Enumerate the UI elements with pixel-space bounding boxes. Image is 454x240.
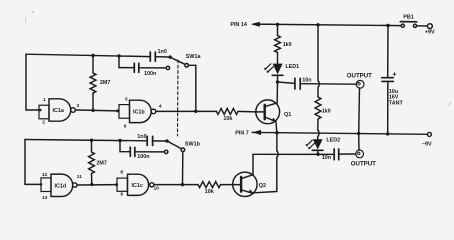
- wire 10k to Q2 base: [221, 184, 233, 186]
- svg-text:9: 9: [120, 191, 123, 197]
- switch SW1b pole circle: [181, 148, 185, 152]
- svg-text:10n: 10n: [322, 155, 331, 161]
- capacitor C 10n bottom plates: [333, 149, 335, 160]
- switch SW1a unused contact circle: [166, 66, 169, 69]
- node IC1d input dot: [40, 183, 43, 186]
- node Q1 emitter on rail: [275, 131, 278, 134]
- wire left rail bottom section: [24, 140, 26, 185]
- svg-text:13: 13: [42, 195, 48, 201]
- node IC1b input dot: [116, 109, 119, 112]
- wire SW1b vertical: [182, 152, 184, 185]
- gate IC1c body: [128, 174, 149, 195]
- resistor R 10k top: [217, 108, 239, 114]
- wire IC1a output: [75, 109, 117, 112]
- switch PB1 contacts: [401, 24, 404, 27]
- gate IC1c input box: [117, 178, 128, 191]
- svg-text:1n0: 1n0: [137, 134, 146, 140]
- node 100n top branch junction: [117, 54, 120, 57]
- svg-text:5: 5: [125, 97, 128, 103]
- svg-text:IC1b: IC1b: [133, 109, 145, 115]
- switch SW1b lever: [168, 142, 181, 149]
- wire bottom-left node rail: [25, 140, 147, 141]
- dust specks (scan artifacts): [25, 11, 451, 106]
- gate IC1a body: [49, 99, 71, 121]
- node 2M7 bottom junction: [91, 109, 94, 112]
- svg-text:Q1: Q1: [284, 112, 291, 118]
- svg-text:Q2: Q2: [259, 183, 266, 189]
- svg-text:10k: 10k: [223, 116, 232, 122]
- wire 1n0 to SW1b contact: [153, 140, 166, 142]
- wire left rail down to IC1a input: [25, 54, 27, 110]
- wire IC1b output to 10k: [156, 110, 217, 112]
- wire 10k to Q1 base: [238, 110, 256, 113]
- svg-text:2M7: 2M7: [96, 161, 107, 167]
- svg-text:4: 4: [159, 104, 162, 110]
- node 10u branch top dot: [386, 24, 389, 27]
- wire 100n to open contact bottom: [135, 151, 165, 153]
- wire rail to jack2 sleeve: [358, 134, 360, 151]
- resistor R 1k0 top: [275, 36, 281, 53]
- svg-text:OUTPUT: OUTPUT: [347, 73, 372, 80]
- svg-text:+: +: [392, 69, 397, 78]
- arrow PIN 14 head: [251, 22, 260, 27]
- arrow PIN 7 head: [252, 130, 261, 135]
- wire 10u branch vertical: [387, 26, 389, 78]
- svg-text:PIN 7: PIN 7: [235, 131, 248, 137]
- wire Q2 emitter horizontal: [253, 192, 277, 193]
- wire 1n0 to switch contact: [155, 56, 169, 58]
- svg-text:1k0: 1k0: [322, 108, 331, 114]
- switch SW1a lever: [171, 58, 185, 65]
- svg-text:1k0: 1k0: [283, 42, 292, 48]
- gate IC1a output bubble: [71, 108, 76, 113]
- svg-text:100n: 100n: [144, 71, 156, 77]
- node SW1a contact dot: [169, 55, 172, 58]
- resistor R 10k bottom: [198, 182, 221, 188]
- wire 10n to output jack 1: [300, 83, 356, 86]
- wire top-left node rail left part: [26, 54, 150, 56]
- wire IC1a input: [26, 109, 40, 111]
- gate IC1b output bubble: [151, 109, 156, 114]
- svg-text:10: 10: [154, 186, 160, 192]
- node IC1b output junction: [194, 110, 197, 113]
- LED LED1: [277, 76, 279, 82]
- wire 10n1 from Q1 collector: [278, 82, 295, 83]
- svg-text:PB1: PB1: [403, 15, 414, 21]
- resistor R 2M7 top: [92, 56, 94, 74]
- wire SW1a pole to vertical: [188, 64, 195, 66]
- wire +9V top rail: [278, 24, 402, 25]
- svg-text:IC1a: IC1a: [53, 108, 65, 114]
- wire vertical to IC1b output: [195, 65, 197, 111]
- node 100n bottom branch junction: [118, 139, 121, 142]
- node SW1b bottom junction: [181, 183, 184, 186]
- svg-text:PIN 14: PIN 14: [230, 22, 246, 28]
- wire 10n2 to jack2: [339, 153, 356, 155]
- wire Q1 emitter down: [276, 121, 277, 132]
- svg-text:8: 8: [120, 170, 123, 176]
- svg-text:SW1b: SW1b: [185, 142, 201, 148]
- svg-text:SW1a: SW1a: [186, 54, 202, 60]
- wire 100n branch: [119, 56, 134, 68]
- node 2M7 bottom junction on gate line: [90, 183, 93, 186]
- svg-text:10n: 10n: [302, 78, 311, 84]
- svg-text:12: 12: [42, 172, 48, 178]
- wire IC1c output to 10k: [154, 184, 198, 186]
- node 2M7 top junction: [91, 54, 94, 57]
- node Q1 collector junction: [276, 80, 279, 83]
- svg-text:10k: 10k: [205, 189, 214, 195]
- wire 1k0 to LED2 with hop over rail: [318, 119, 319, 139]
- LED2 emission arrows: [306, 140, 312, 146]
- node jack vertical on rail: [357, 132, 360, 135]
- svg-text:–9V: –9V: [422, 141, 432, 147]
- node +9V rail / Q1 branch dot: [276, 23, 279, 26]
- switch SW1b unused contact circle: [165, 150, 168, 153]
- wire IC1d input: [25, 183, 41, 185]
- svg-text:1n0: 1n0: [158, 49, 167, 55]
- resistor R 2M7 bottom: [91, 140, 93, 152]
- wire LED2 branch vertical upper: [318, 25, 319, 97]
- resistor R 1k0 LED2: [315, 97, 321, 119]
- gate IC1d output bubble: [73, 183, 77, 187]
- svg-text:IC1d: IC1d: [55, 183, 67, 189]
- capacitor C 10n top plates: [294, 78, 296, 89]
- wire 100n bottom branch: [120, 141, 130, 152]
- LED1 emission arrows: [265, 64, 271, 70]
- node LED2 cathode junction: [316, 153, 319, 156]
- svg-text:3: 3: [77, 103, 80, 109]
- capacitor C 1n0 top plates: [149, 52, 151, 61]
- switch SW1a pole circle: [185, 64, 189, 68]
- svg-text:100n: 100n: [137, 154, 149, 160]
- node 2M7 bottom-section top junction: [90, 139, 93, 142]
- svg-text:OUTPUT: OUTPUT: [351, 161, 376, 168]
- gate IC1a input box: [39, 105, 49, 119]
- wire PIN14 arrow line: [253, 23, 278, 25]
- wire Q1 collector up: [276, 82, 278, 103]
- svg-text:6: 6: [124, 123, 127, 129]
- LED LED2: [313, 139, 323, 149]
- jack OUTPUT 1: [356, 80, 364, 88]
- gate IC1d body: [51, 174, 73, 196]
- svg-text:11: 11: [77, 174, 82, 180]
- svg-text:LED2: LED2: [326, 138, 340, 144]
- node IC1c input dot: [115, 183, 118, 186]
- jack OUTPUT 2: [356, 150, 364, 158]
- gate IC1b input box: [119, 105, 130, 119]
- node SW1b contact dot: [165, 139, 168, 142]
- capacitor C 100n top plates: [133, 63, 135, 72]
- svg-text:2M7: 2M7: [100, 80, 111, 86]
- wire SW1a-SW1b gang dashed link: [177, 60, 180, 136]
- terminal -9V: [427, 132, 431, 136]
- capacitor C 10u 16V TANT: [382, 77, 394, 79]
- svg-text:IC1c: IC1c: [132, 183, 143, 189]
- capacitor C 1n0 bottom plates: [146, 136, 148, 145]
- gate IC1c output bubble: [150, 183, 154, 187]
- wire IC1d output: [77, 184, 117, 186]
- wire jack1 sleeve to -9V rail: [358, 88, 361, 134]
- switch PB1 bar: [400, 21, 417, 23]
- node IC1a input dot: [39, 109, 42, 112]
- node 10u bottom on rail: [386, 132, 389, 135]
- wire Q2 collector up and right: [253, 154, 334, 174]
- gate IC1b body: [130, 100, 152, 122]
- wire PB1 to +9V terminal: [417, 25, 428, 27]
- terminal +9V: [428, 24, 433, 29]
- svg-text:TANT: TANT: [389, 100, 404, 106]
- svg-text:LED1: LED1: [285, 64, 299, 70]
- wire -9V bottom rail: [252, 132, 427, 134]
- capacitor C 100n bottom plates: [129, 147, 131, 156]
- svg-text:1: 1: [43, 97, 46, 103]
- wire 100n to open contact: [139, 67, 166, 69]
- node LED2 branch top dot: [316, 23, 319, 26]
- transistor Q2: [233, 172, 257, 196]
- gate IC1d input box: [41, 178, 51, 192]
- svg-text:+9V: +9V: [425, 29, 435, 35]
- transistor Q1: [256, 100, 280, 124]
- svg-text:2: 2: [42, 120, 45, 126]
- wire rail down to Q2 emitter with hop: [277, 133, 278, 192]
